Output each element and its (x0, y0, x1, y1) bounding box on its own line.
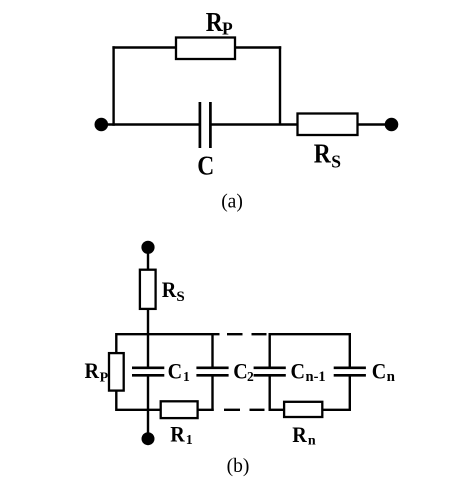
wire: top rail from RP to right riser (235, 46, 281, 48)
resistor R1 (161, 401, 198, 418)
capacitor C1 bottom plate (132, 374, 164, 377)
wire: RP branch upper (115, 333, 117, 353)
capacitor C1 top plate (132, 366, 164, 369)
wire: from RS to top rail (147, 309, 149, 334)
wire: Cn branch lower (349, 376, 351, 411)
wire: center branch from rail to C1 (147, 334, 149, 367)
node: top terminal dot (b) (141, 241, 154, 254)
wire: Cn-1 branch lower (269, 376, 271, 411)
resistor RS (b) (140, 270, 156, 309)
capacitor Cn bottom plate (334, 374, 366, 377)
resistor RP (176, 38, 235, 60)
capacitor C2 top plate (196, 366, 228, 369)
capacitor Cn-1 bottom plate (254, 374, 286, 377)
capacitor C left plate (199, 102, 202, 148)
wire: right vertical riser (a) (279, 46, 281, 124)
svg-text:(b): (b) (227, 456, 250, 477)
wire: from top dot to RS (147, 247, 149, 269)
node: bottom terminal dot (b) (142, 432, 155, 445)
svg-text:(a): (a) (221, 192, 243, 213)
wire: Cn-1 branch upper (269, 333, 271, 367)
wire: RP branch lower (115, 391, 117, 411)
wire: top rail left solid segment (116, 333, 219, 335)
capacitor C2 bottom plate (196, 374, 228, 377)
capacitor Cn-1 top plate (254, 366, 286, 369)
wire: bottom rail from capacitor to RS (212, 123, 298, 125)
wire: top rail from left riser to RP (112, 46, 176, 48)
wire: bottom rail from Rn to Cn branch (322, 409, 351, 411)
wire: bottom rail from Cn-1 branch to Rn (269, 409, 285, 411)
wire: bottom rail from RP branch to R1 (116, 409, 160, 411)
wire: C2 branch lower (211, 376, 213, 411)
wire: bottom rail dash 1 (224, 409, 240, 411)
wire: top rail dash 1 (227, 333, 243, 335)
wire: from RS to right terminal dot (358, 123, 392, 125)
node: right terminal dot (a) (385, 118, 399, 132)
wire: top rail right solid segment (270, 333, 351, 335)
capacitor C right plate (209, 102, 212, 148)
capacitor Cn top plate (334, 366, 366, 369)
wire: bottom rail from R1 to C2 branch (198, 409, 214, 411)
wire: top rail dash 2 (252, 333, 267, 335)
svg-text:C: C (197, 151, 214, 181)
wire: left vertical riser (a) (112, 46, 114, 125)
wire: center branch from C1 through bottom rail to bottom dot (147, 376, 149, 439)
resistor Rn (284, 402, 322, 417)
resistor RP (b) (109, 353, 124, 391)
wire: bottom rail dash 2 (250, 409, 265, 411)
node: left terminal dot (a) (95, 118, 109, 132)
wire: C2 branch upper (211, 333, 213, 367)
resistor RS (298, 114, 358, 136)
wire: bottom rail left segment from dot to capacitor C (101, 123, 200, 125)
wire: Cn branch upper (349, 333, 351, 367)
